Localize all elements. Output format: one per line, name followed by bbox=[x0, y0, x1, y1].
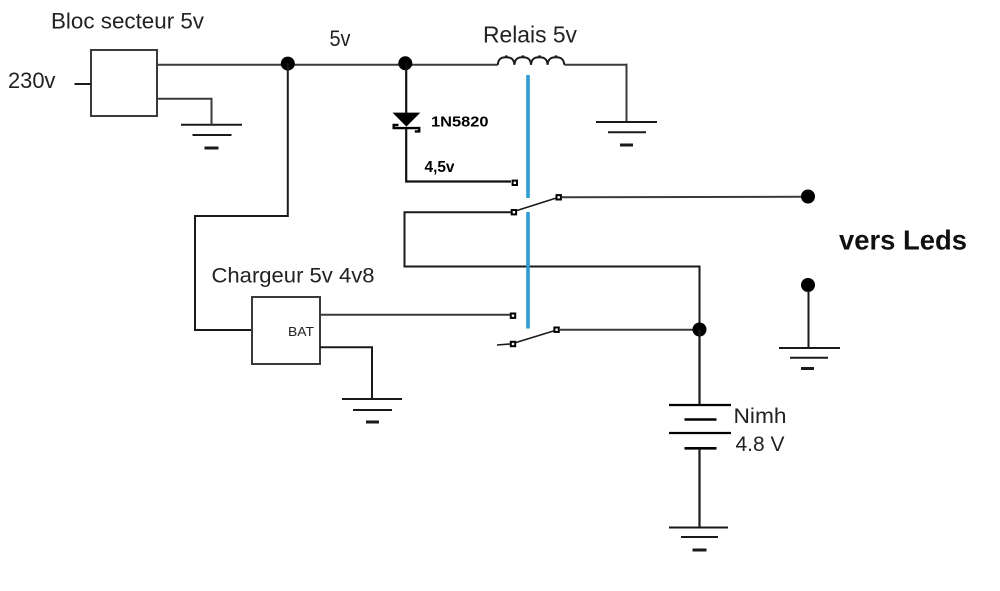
mechanical link (blue) upper segment bbox=[526, 75, 530, 198]
power supply box U1 (bloc secteur) bbox=[91, 50, 157, 116]
inductor coil top bumps bbox=[505, 55, 557, 57]
wire: diode cathode down then right to switch terminal bbox=[406, 129, 511, 182]
wire: J1 down and across to charger input bbox=[195, 64, 288, 330]
charger box U2 bbox=[252, 297, 320, 364]
node: vers Leds + terminal bbox=[801, 190, 815, 204]
svg-text:vers Leds: vers Leds bbox=[839, 225, 967, 256]
wire: J2 down to diode anode bbox=[405, 63, 407, 113]
wire: S2 pole to battery node bbox=[560, 329, 694, 331]
wire: vers Leds - down to ground bbox=[808, 291, 810, 348]
svg-text:Chargeur 5v 4v8: Chargeur 5v 4v8 bbox=[212, 264, 375, 287]
mechanical link (blue) lower segment bbox=[526, 212, 530, 329]
wire: rail after coil to relay ground drop bbox=[565, 64, 628, 66]
battery BT1 plate 3 (long) bbox=[669, 432, 731, 434]
svg-text:Nimh: Nimh bbox=[734, 405, 787, 428]
terminal square: S2 pole bbox=[554, 328, 558, 332]
wire: main 5v rail from box to relay coil bbox=[157, 64, 498, 66]
node: battery junction bbox=[693, 323, 707, 337]
switch blade S2 bbox=[516, 331, 554, 343]
svg-text:230v: 230v bbox=[8, 68, 56, 93]
svg-text:BAT: BAT bbox=[288, 325, 314, 339]
ground (charger) bbox=[342, 399, 402, 422]
wire: battery node down to battery + bbox=[698, 330, 700, 405]
diode D1 schottky cathode bar bbox=[394, 125, 420, 131]
wire: charger BAT output to S2 NO terminal bbox=[320, 314, 510, 316]
ground (battery) bbox=[669, 528, 728, 551]
ground (vers Leds) bbox=[779, 348, 840, 369]
node: vers Leds - terminal bbox=[801, 278, 815, 292]
diode D1 (schottky 1N5820) triangle bbox=[393, 113, 421, 127]
wire: 230v input stub bbox=[75, 83, 92, 85]
terminal square: S1 NC (loop side) bbox=[512, 210, 516, 214]
wire: S2 blade tail stub bbox=[497, 344, 510, 345]
svg-text:4.8 V: 4.8 V bbox=[736, 433, 785, 456]
switch blade S1 bbox=[517, 198, 556, 210]
wire: box lower output to secteur ground bbox=[157, 99, 212, 125]
svg-text:5v: 5v bbox=[330, 26, 352, 51]
wire: S1 NC loop left-down-right to battery node bbox=[405, 212, 700, 323]
ground (relay) bbox=[596, 122, 657, 145]
wire: charger ground lead bbox=[320, 347, 372, 399]
terminal square: S1 NO (4,5v side) bbox=[513, 181, 517, 185]
wire: S1 pole to vers-Leds node bbox=[562, 196, 802, 199]
battery BT1 plate 1 (long) bbox=[669, 404, 731, 406]
battery BT1 plate 2 (short) bbox=[685, 418, 717, 421]
svg-text:Bloc secteur 5v: Bloc secteur 5v bbox=[51, 9, 204, 34]
battery BT1 plate 4 (short) bbox=[685, 447, 717, 450]
node: junction J2 (5v rail / diode) bbox=[398, 56, 412, 70]
wire: battery - down to ground bbox=[698, 449, 700, 527]
svg-text:Relais 5v: Relais 5v bbox=[483, 22, 577, 48]
svg-text:4,5v: 4,5v bbox=[425, 159, 455, 176]
terminal square: S1 pole bbox=[557, 195, 561, 199]
terminal square: S2 NO (charger side) bbox=[511, 314, 515, 318]
ground (secteur) bbox=[181, 125, 242, 148]
node: junction J1 (5v rail / charger feed) bbox=[281, 57, 295, 71]
wire: relay coil right side down to ground bbox=[626, 64, 628, 122]
inductor: relay coil K1 bbox=[498, 57, 564, 65]
svg-text:1N5820: 1N5820 bbox=[431, 114, 489, 131]
terminal square: S2 blade free end bbox=[511, 342, 515, 346]
